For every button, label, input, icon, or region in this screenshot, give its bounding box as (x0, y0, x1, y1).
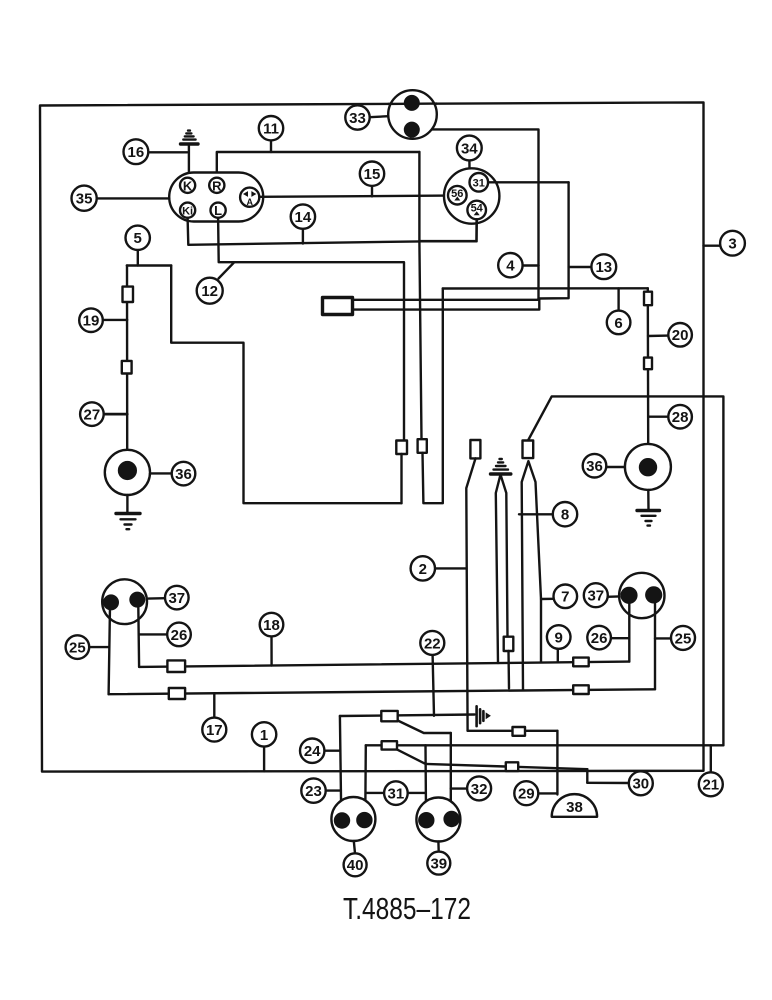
lamp 40 (twin bulb head lamp) (331, 797, 375, 841)
wire from lamp B33 lower terminal to node at x538 (412, 129, 539, 265)
svg-text:T.4885–172: T.4885–172 (343, 891, 471, 926)
svg-text:39: 39 (430, 856, 447, 873)
cluster terminal L (211, 203, 226, 219)
border frame outer box (40, 102, 704, 771)
svg-text:36: 36 (586, 458, 603, 475)
svg-text:37: 37 (168, 590, 185, 607)
callout 13 (591, 254, 616, 279)
connector on horn ground line (513, 727, 526, 736)
staircase wire from x171 down-right to L-wire connector (171, 266, 401, 504)
wire 21 route: connector diagonal up, along y396, down outside border (528, 396, 723, 745)
connector on left wire (lower) (122, 361, 132, 374)
connector on bus25 left (169, 688, 185, 699)
horn left lead down (556, 731, 558, 795)
callout 30 (629, 771, 653, 795)
ground symbol above instrument cluster (181, 131, 199, 179)
callout 11 (259, 116, 283, 152)
flasher unit U34 (circle with 3 terminals) (444, 168, 499, 223)
wire flasher 31 right to x568 (turn signal feed) (488, 181, 568, 183)
svg-text:12: 12 (201, 283, 218, 300)
callout 1 (252, 722, 276, 746)
callout 30 tick (587, 782, 629, 785)
connector on left wire (upper) (123, 287, 134, 302)
bus18 long wire (tail lamps inner) (139, 662, 629, 667)
callout 9 (547, 625, 571, 649)
callout 35 (72, 186, 97, 211)
svg-text:26: 26 (591, 630, 608, 647)
callout 9 stem (557, 649, 559, 662)
connector on ignition wire (418, 439, 427, 453)
connector on loom A right side (504, 637, 514, 651)
callout 4 tick (522, 264, 538, 266)
callout 29 (514, 781, 538, 805)
connector on horn feed line (506, 762, 518, 771)
svg-text:25: 25 (675, 630, 692, 647)
wire header bar below callout 5 (127, 264, 171, 266)
callout 17 stem (213, 693, 215, 717)
cluster indicator A (turn arrows) (240, 188, 259, 207)
callout 7 tick (541, 598, 554, 601)
callout 3 tick on border (704, 244, 721, 246)
svg-text:2: 2 (419, 561, 427, 578)
callout 26 right (587, 626, 611, 650)
left lamp feed wire x=127 down to lamp 36 left (126, 266, 129, 451)
svg-text:30: 30 (632, 776, 649, 793)
wire from x568 down to harness (callout 13 wire) (539, 182, 569, 298)
callout 26 left (167, 623, 191, 647)
callout 18 (260, 613, 284, 637)
flasher terminal 56 (448, 186, 467, 205)
wire below L connector down to staircase (400, 454, 402, 503)
connector on L-wire (396, 441, 407, 455)
callout 21 (699, 772, 723, 796)
wire flasher 54 down to node (241) (419, 219, 476, 241)
svg-text:18: 18 (263, 617, 280, 634)
callout 28 (668, 405, 692, 429)
bus25 long wire (tail lamps outer) (109, 689, 655, 694)
svg-text:37: 37 (587, 588, 604, 605)
svg-text:25: 25 (69, 640, 86, 657)
wire K to ground (drawn above) / callout 16 tick (149, 151, 188, 153)
svg-text:K: K (183, 178, 193, 193)
lamp 36 right (side lamp) (625, 444, 671, 490)
callout 37 left (165, 586, 189, 610)
callout 2 tick (435, 567, 466, 569)
callout 39 (427, 852, 450, 875)
cluster terminal Ki (180, 203, 195, 218)
callout 19 (79, 308, 103, 332)
callout 3 (720, 231, 745, 256)
callout 17 (202, 718, 226, 742)
svg-text:35: 35 (76, 191, 93, 208)
svg-text:21: 21 (702, 777, 719, 794)
wire Ki down and right (callout 14) (188, 218, 420, 245)
svg-text:29: 29 (518, 786, 535, 803)
callout 39 stem (437, 842, 440, 852)
instrument cluster housing U2 (stadium outline) (169, 173, 263, 222)
wire 24 feed line y716 to ground (340, 715, 475, 717)
connector on right drop (upper) (644, 292, 652, 306)
callout 14 (291, 204, 315, 243)
callout 26 left tick (139, 633, 167, 635)
svg-text:27: 27 (84, 407, 101, 424)
lamp 37 left (twin bulb) (102, 579, 147, 624)
callout 21 stem (710, 745, 712, 772)
ground below lamp 36 left (116, 495, 140, 529)
callout 37 left tick (148, 597, 165, 600)
svg-text:R: R (212, 178, 222, 193)
flasher terminal 31 (470, 173, 489, 192)
svg-text:13: 13 (595, 259, 612, 276)
connector on right drop (lower) (644, 358, 652, 370)
wire down to lamp 40 right dot (364, 745, 367, 813)
callout 6 stem (617, 288, 619, 311)
cluster terminal R (209, 178, 224, 194)
lamp 37 right (twin bulb) (619, 573, 664, 618)
svg-text:L: L (214, 203, 222, 218)
wire R terminal up and right to x419 (ignition feed, callout 11) (217, 152, 420, 178)
connector on bus18 right (573, 658, 589, 667)
callout 20 tick (648, 334, 668, 337)
callout 27 (80, 402, 104, 426)
callout 37 right tick (607, 595, 619, 598)
svg-text:19: 19 (83, 313, 100, 330)
callout 29 tick (538, 792, 557, 794)
callout 36 right (583, 454, 607, 478)
connector on y716 line (381, 711, 397, 721)
wire down to lamp 39 outer dot (450, 733, 452, 812)
svg-text:22: 22 (424, 635, 441, 652)
svg-text:28: 28 (672, 409, 689, 426)
wire down to lamp 40 left dot (340, 716, 341, 813)
callout 36 right tick (606, 466, 625, 468)
harness plug (solid-walled rectangle) (323, 298, 353, 315)
chassis ground (rotated) at wire 22/2 junction (477, 706, 491, 726)
svg-text:9: 9 (555, 629, 563, 646)
tapered loom A (pointed wire bundle) (496, 475, 508, 663)
svg-text:3: 3 (728, 236, 736, 253)
svg-text:32: 32 (471, 781, 488, 798)
svg-text:Ki: Ki (182, 205, 193, 217)
wire 2 down to chassis ground point (466, 458, 475, 730)
lamp 36 left (side lamp) (105, 450, 150, 495)
svg-text:33: 33 (349, 110, 366, 127)
svg-text:23: 23 (305, 783, 322, 800)
wire lamp37R outer dot down to bus25 (654, 601, 656, 690)
wire lamp37L outer dot down to bus25 (109, 607, 110, 695)
wire below connector U-turn to x442.8 riser (423, 289, 443, 504)
svg-text:40: 40 (347, 857, 364, 874)
branch diagonal from connector down to horn feed line (397, 749, 426, 764)
callout 35 tick to cluster (97, 197, 170, 199)
svg-text:31: 31 (473, 177, 485, 189)
wire 21/24 lower line y745 (366, 744, 724, 746)
callout 2 (411, 556, 435, 580)
callout 40 (344, 853, 367, 876)
wire from cluster A to flasher 56 (callout 15) (259, 196, 448, 197)
callout 23 tick (326, 789, 341, 791)
callout 28 tick (648, 416, 668, 418)
callout 22 stem (433, 655, 434, 716)
lamp 39 (twin bulb head lamp) (416, 798, 460, 842)
svg-text:1: 1 (260, 727, 268, 744)
wire ignition vertical x419-423 down to connector (419, 152, 421, 439)
callout 40 stem (354, 841, 355, 853)
wire lamp37R inner dot down to bus18 (628, 601, 630, 662)
ground symbol above tapered loom A (491, 459, 511, 474)
callout 23 (301, 778, 325, 802)
callout 34 and stem (457, 136, 482, 169)
svg-text:26: 26 (171, 627, 188, 644)
callout 8 tick (519, 513, 553, 515)
svg-text:A: A (246, 197, 253, 207)
callout 36 left (172, 462, 196, 486)
svg-text:14: 14 (295, 209, 312, 226)
svg-text:24: 24 (304, 743, 321, 760)
callout 24 tick (325, 750, 341, 752)
callout 16 (123, 139, 148, 164)
connector on y745 line (382, 741, 397, 749)
tapered loom B below connector (522, 461, 541, 689)
callout 33 (345, 105, 388, 129)
callout 6 (607, 311, 631, 335)
callout 4 (498, 253, 522, 277)
harness cable (long thin outline) (353, 299, 540, 310)
callout 12 (197, 263, 234, 304)
wire right lamp drop x648 (647, 288, 650, 444)
callout 15 (360, 162, 384, 197)
wire L down and right (callout 12 wire) (218, 218, 404, 441)
horn 38 (dome) (552, 794, 597, 817)
svg-text:20: 20 (672, 327, 689, 344)
svg-text:4: 4 (506, 258, 515, 275)
callout 18 stem (270, 636, 273, 665)
svg-text:17: 17 (206, 722, 223, 739)
svg-text:5: 5 (134, 230, 142, 247)
svg-text:7: 7 (561, 589, 569, 606)
svg-text:38: 38 (566, 799, 583, 816)
svg-text:16: 16 (128, 144, 145, 161)
callout 25 left tick (90, 646, 109, 648)
callout 24 (300, 739, 324, 763)
horn right lead (586, 769, 588, 783)
callout 19 tick (101, 319, 127, 321)
svg-text:8: 8 (561, 507, 569, 524)
callout 1 stem to bottom border (263, 747, 265, 772)
callout 25 right (671, 626, 695, 650)
callout 8 (553, 502, 577, 526)
wire main lighting feed y288 from riser to right lamp drop (443, 287, 648, 290)
horn feed line (slight slope) (426, 764, 588, 769)
callout 31 ticks (bottom) (366, 792, 426, 794)
callout 32 (467, 776, 491, 800)
svg-text:36: 36 (175, 466, 192, 483)
callout 32 tick (451, 787, 467, 789)
callout 22 (420, 631, 444, 655)
connector on bus18 left (167, 660, 185, 672)
loom A right side continues to bus (507, 651, 510, 688)
callout 25 left (66, 635, 90, 659)
callout 37 right (584, 583, 608, 607)
connector on bus25 right (573, 685, 589, 694)
svg-text:11: 11 (263, 121, 279, 138)
callout 31 bottom (384, 781, 408, 805)
svg-text:6: 6 (614, 315, 622, 332)
callout 27 tick (103, 413, 127, 416)
drawing number text (343, 891, 471, 926)
callout 36 left tick (150, 472, 172, 474)
wire down to lamp 39 left dot (424, 745, 427, 813)
branch diagonal from connector to lamp39 inner feed (398, 721, 451, 734)
callout 25 right tick (655, 637, 671, 639)
svg-text:34: 34 (461, 140, 478, 157)
lamp 33 (twin filament unit on top border) (388, 90, 437, 139)
flasher terminal 54 (467, 201, 486, 220)
cluster terminal K (180, 178, 195, 194)
svg-text:15: 15 (364, 166, 381, 183)
wire ground tap to horn (y730) (468, 730, 558, 732)
callout 13 tick (569, 266, 592, 268)
connector (bullet) on wire 2 (470, 440, 480, 458)
callout 20 (668, 323, 692, 347)
ground below lamp 36 right (637, 490, 660, 526)
connector on wire 21/8 (523, 441, 534, 459)
callout 7 (554, 585, 578, 609)
wire x538 down to harness cable end (537, 266, 539, 299)
callout 26 right tick (611, 637, 630, 639)
svg-text:31: 31 (388, 786, 405, 803)
wire lamp37L inner dot down to bus18 (137, 606, 140, 667)
callout 5 and stem (126, 226, 150, 266)
